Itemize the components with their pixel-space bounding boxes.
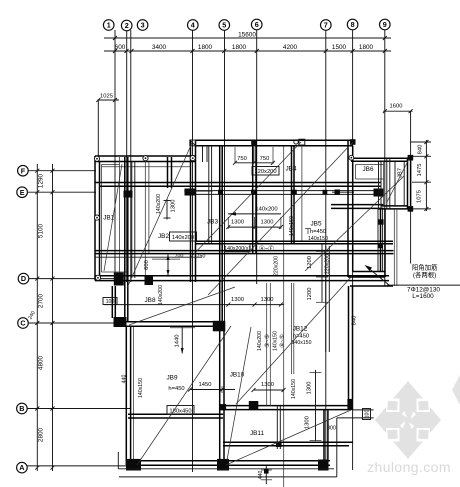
svg-text:5: 5 <box>222 21 226 30</box>
svg-text:1300: 1300 <box>231 220 244 226</box>
svg-text:1: 1 <box>107 21 111 30</box>
svg-text:1300: 1300 <box>305 416 311 429</box>
row B mid column black <box>249 401 258 410</box>
svg-text:B: B <box>19 404 24 413</box>
diagonal leader JB7 appendage <box>305 176 404 271</box>
svg-text:(各两根): (各两根) <box>413 270 436 279</box>
svg-text:Ⓐ~Ⓕ: Ⓐ~Ⓕ <box>259 245 274 253</box>
leader arrow 140x200 mid <box>228 207 281 216</box>
axis line C <box>28 322 122 324</box>
wall step black x149 at D <box>145 276 154 286</box>
diagonal leader upper-left block <box>127 143 192 288</box>
lower block C row corner blocks <box>114 317 127 327</box>
grid line axis 2 <box>126 31 128 282</box>
label 180x450 box <box>167 406 194 415</box>
dim 1300 horizontal lower <box>252 382 286 392</box>
svg-text:1200: 1200 <box>307 288 313 301</box>
watermark edge piece right <box>452 375 460 405</box>
svg-text:JB7: JB7 <box>398 168 404 178</box>
dim 1300 1300 lower mid <box>104 297 284 307</box>
beam row D <box>95 276 389 281</box>
svg-text:120x200: 120x200 <box>254 169 276 175</box>
axis circle 9 <box>380 19 391 30</box>
diagonal leader JB5 long <box>208 142 353 295</box>
svg-text:E: E <box>20 188 25 197</box>
svg-text:6: 6 <box>255 20 259 29</box>
svg-text:700: 700 <box>175 253 184 259</box>
appendage right edge <box>408 155 411 209</box>
beam row y183 upper blocks <box>95 183 381 187</box>
lower block C row top edge <box>114 322 224 327</box>
axis circle C <box>18 318 29 329</box>
diagonal leader JB3/axis line long <box>191 142 301 257</box>
diagonal leader JB9 room <box>137 326 231 465</box>
lower block heavy mid vertical <box>220 331 224 460</box>
svg-text:440: 440 <box>122 375 128 384</box>
lower inner verticals x267 x271 <box>267 283 271 406</box>
dim 440 bottom <box>258 466 272 484</box>
column marker top-right corner black <box>350 139 356 145</box>
column marker stub black <box>378 219 383 224</box>
wall pair x291 <box>292 146 295 243</box>
svg-text:1025: 1025 <box>100 94 113 100</box>
lower block left edge <box>126 327 130 465</box>
dim 750 750 top <box>233 147 275 165</box>
diagonal leader JB10 room <box>227 327 251 460</box>
top dimension line lower <box>104 50 391 52</box>
axis line D <box>29 278 116 280</box>
note leader line <box>387 284 460 286</box>
svg-text:100: 100 <box>106 299 115 305</box>
note rebar text <box>407 287 440 300</box>
svg-text:JB11: JB11 <box>250 430 265 437</box>
svg-text:F: F <box>21 166 26 175</box>
wall pair axis2 vertical <box>125 157 128 321</box>
column marker left bottom <box>95 275 100 280</box>
svg-text:840: 840 <box>352 316 358 326</box>
svg-text:JB5: JB5 <box>310 220 321 227</box>
top dim ticks <box>113 36 387 53</box>
axis circle 5 <box>219 20 230 31</box>
axis line E right stub <box>332 191 354 193</box>
grid line aux right (1600) <box>410 111 412 263</box>
lower inner wall x326 <box>326 246 330 352</box>
svg-text:140x150: 140x150 <box>291 379 297 399</box>
beam row R1 <box>195 241 393 244</box>
svg-text:750: 750 <box>260 156 270 162</box>
column marker E row x220 black <box>218 190 223 195</box>
svg-text:4: 4 <box>191 21 195 30</box>
svg-text:JB3: JB3 <box>207 219 218 226</box>
connecting wall black step at D <box>114 273 124 286</box>
diagonal leader JB11 room <box>226 410 351 465</box>
grid line aux left (1025) <box>97 100 99 157</box>
dim 1600 top right <box>383 104 413 114</box>
left dim ticks <box>35 169 54 470</box>
column marker stub at R1 black <box>378 243 383 248</box>
column marker B row junction black <box>221 404 227 410</box>
wall step black x190 y190 <box>185 189 196 196</box>
wall step pair axis4 <box>191 140 196 282</box>
svg-text:7: 7 <box>324 21 328 30</box>
diagonal leader JB1 room <box>104 164 122 271</box>
top dimension line upper <box>104 37 391 39</box>
svg-text:800: 800 <box>327 426 336 432</box>
svg-text:600: 600 <box>144 260 150 270</box>
column marker E row x253 black <box>251 190 256 195</box>
column marker appendage top-left <box>349 155 354 160</box>
svg-text:140x200: 140x200 <box>156 194 162 214</box>
svg-text:L=1600: L=1600 <box>412 293 434 300</box>
svg-text:1800: 1800 <box>198 44 213 51</box>
svg-text:h=450: h=450 <box>310 229 326 235</box>
svg-text:③~⑤: ③~⑤ <box>264 334 271 348</box>
svg-text:140x200(s): 140x200(s) <box>224 246 250 252</box>
corner step lower-right of upper block <box>348 209 393 286</box>
svg-text:JB4: JB4 <box>285 166 296 173</box>
svg-text:JB8: JB8 <box>144 297 155 304</box>
svg-text:220x200: 220x200 <box>274 256 280 276</box>
lower block left inner line <box>133 327 135 461</box>
axis line F <box>28 170 96 172</box>
beam row B right <box>219 406 353 410</box>
column marker axis4 top <box>190 140 196 146</box>
svg-text:1300: 1300 <box>261 382 274 388</box>
column marker appendage bottom-right black <box>408 206 414 212</box>
svg-text:h=450: h=450 <box>168 386 184 392</box>
dim 1440 rotated with arrow <box>170 327 195 354</box>
svg-text:1450: 1450 <box>199 382 212 388</box>
axis line E <box>27 191 96 193</box>
JB6 room inner rect <box>356 161 384 206</box>
svg-text:5100: 5100 <box>38 223 45 238</box>
svg-text:140x200: 140x200 <box>158 285 164 305</box>
dim 1200 rotated chain <box>307 244 328 303</box>
beam row B left <box>128 414 223 418</box>
right dimension line (appendage) <box>411 140 431 211</box>
lower right step edge <box>324 410 328 461</box>
beam row y446 <box>223 442 353 446</box>
axis circle B <box>17 403 28 414</box>
svg-text:3: 3 <box>141 21 145 30</box>
svg-text:8: 8 <box>351 20 355 29</box>
svg-text:220x200: 220x200 <box>325 254 331 274</box>
wall pair x220 upper <box>220 146 223 321</box>
axis circle 1 <box>103 20 114 31</box>
column marker E row right black <box>335 190 340 195</box>
column marker x279 row446 black <box>276 441 282 447</box>
svg-text:100: 100 <box>365 410 371 419</box>
axis circle A <box>17 462 28 473</box>
svg-text:1440: 1440 <box>175 335 181 348</box>
appendage inner walls <box>387 158 404 209</box>
dim 1025 left small <box>96 94 119 103</box>
label 100 box left <box>103 298 117 306</box>
svg-text:1075: 1075 <box>417 190 423 203</box>
wall thin verticals upper-left <box>145 157 149 278</box>
svg-text:750: 750 <box>237 156 247 162</box>
svg-text:1290: 1290 <box>38 173 45 188</box>
svg-text:140x150: 140x150 <box>273 331 279 351</box>
svg-text:1600: 1600 <box>390 104 403 110</box>
beam row R2 <box>95 251 394 254</box>
svg-text:1300: 1300 <box>306 382 312 395</box>
dim line 1300 vertical upper-left <box>164 199 171 220</box>
label 140x200(s) box <box>224 244 250 252</box>
wall upper-right block top edge <box>196 140 353 146</box>
svg-text:140x150: 140x150 <box>292 340 312 346</box>
label 100 box right step <box>363 409 371 420</box>
connecting wall D-C <box>112 286 115 318</box>
beam row A <box>128 461 330 465</box>
dim 600 rotated <box>144 255 180 276</box>
wall step x205 between blocks <box>203 146 212 243</box>
axis circle 6 <box>251 19 262 30</box>
column marker x254 top <box>251 140 257 146</box>
column marker E row x294 black <box>292 190 297 195</box>
watermark logo zhulong diamond <box>375 381 441 459</box>
axis line B <box>27 408 130 410</box>
svg-text:A: A <box>19 463 24 472</box>
label JB12 stack <box>292 325 312 346</box>
svg-text:1300: 1300 <box>231 297 244 303</box>
grid line axis 8 <box>352 30 354 470</box>
svg-text:1300: 1300 <box>261 297 274 303</box>
wall step black x128 y192 <box>124 191 133 198</box>
note leader arrow corner <box>365 265 390 285</box>
left dimension line outer <box>36 164 38 471</box>
svg-text:2800: 2800 <box>38 427 45 442</box>
diagonal leader JB12 room <box>236 276 352 404</box>
wall pair axis3 vertical <box>132 162 135 279</box>
svg-text:2700: 2700 <box>38 293 45 308</box>
svg-text:15600: 15600 <box>238 32 256 39</box>
svg-text:C: C <box>20 319 25 328</box>
grid line axis 1 <box>114 30 116 282</box>
appendage inner pair x379 <box>379 161 382 209</box>
svg-text:JB6: JB6 <box>362 166 373 173</box>
svg-text:D: D <box>21 274 26 283</box>
svg-text:140x200: 140x200 <box>257 331 263 351</box>
svg-text:阳角加筋: 阳角加筋 <box>412 262 438 271</box>
lower mid column x279 <box>277 406 280 449</box>
svg-text:1800: 1800 <box>359 44 374 51</box>
axis line A <box>27 465 130 467</box>
row A mid column black <box>217 459 229 471</box>
wall pair x254 <box>253 146 256 253</box>
column marker appendage top-right black <box>408 155 414 161</box>
dim 1300 1300 rotated chain right <box>305 370 322 441</box>
wall pair x395 right <box>394 209 397 286</box>
grid line axis 9 <box>384 30 386 286</box>
axis circle 8 <box>347 19 358 30</box>
svg-text:140x150: 140x150 <box>308 236 328 242</box>
row B right corner black <box>347 399 353 410</box>
wall upper-left block left edge <box>95 156 100 281</box>
column marker top x193 <box>190 156 195 161</box>
svg-text:2: 2 <box>125 21 129 30</box>
dim 1450 <box>188 382 235 393</box>
svg-text:140x150: 140x150 <box>289 216 295 236</box>
svg-text:JB12: JB12 <box>293 325 308 332</box>
beam row R3 <box>95 256 202 258</box>
appendage stub walls down <box>378 209 383 272</box>
svg-text:4800: 4800 <box>38 355 45 370</box>
svg-text:440: 440 <box>258 471 264 480</box>
column marker x302 top <box>294 139 305 145</box>
wall pair x169 <box>168 157 172 188</box>
svg-text:1300: 1300 <box>261 220 274 226</box>
svg-text:840: 840 <box>418 145 424 155</box>
svg-text:1800: 1800 <box>232 44 247 51</box>
row A corner black right <box>318 460 329 471</box>
beam row E axis <box>195 191 381 195</box>
label JB2 size box 140x200 <box>170 232 197 241</box>
dim 1300 1300 mid <box>226 217 283 229</box>
svg-text:140x150: 140x150 <box>138 378 144 398</box>
left dimension line inner <box>52 164 54 471</box>
svg-text:1500: 1500 <box>332 44 347 51</box>
axis circle 2 <box>121 20 132 31</box>
grid line axis 4 <box>192 30 194 472</box>
wall thin x302 <box>301 146 303 242</box>
wall upper-left block top edge <box>95 156 196 162</box>
svg-text:4200: 4200 <box>283 44 298 51</box>
column marker E row x325 black <box>323 190 328 195</box>
svg-text:JB9: JB9 <box>166 375 177 382</box>
grid line axis 6 <box>256 30 258 284</box>
note text box <box>412 262 438 279</box>
beam JB6 bottom pair <box>331 205 384 209</box>
column marker top-left corner <box>94 156 99 161</box>
svg-text:140x200: 140x200 <box>255 207 277 213</box>
outer footing line bottom 1 <box>118 452 336 477</box>
svg-text:750: 750 <box>197 253 206 259</box>
outer footing line bottom 2 <box>337 410 374 477</box>
svg-text:zhulong.com: zhulong.com <box>367 459 451 475</box>
svg-text:140x200: 140x200 <box>172 235 194 241</box>
label JB9 stack <box>166 375 184 393</box>
grid line aux mid <box>283 146 285 487</box>
axis circle E <box>17 187 28 198</box>
svg-text:180x450: 180x450 <box>169 409 191 415</box>
diagonal leader JB8 <box>129 287 235 325</box>
wall step black right of JB6 <box>374 189 384 197</box>
axis circle D <box>18 273 29 284</box>
column marker top mid x145 <box>143 156 148 161</box>
diagonal leader appendage inner <box>387 159 409 202</box>
grid line axis 3 <box>130 30 132 282</box>
appendage bottom edge <box>378 206 411 209</box>
column marker left mid <box>94 215 99 220</box>
grid line axis 5 <box>224 30 226 331</box>
svg-text:9: 9 <box>383 20 387 29</box>
lower block right edge <box>349 286 353 402</box>
wall JB1 room inner lines <box>102 157 191 278</box>
svg-text:1475: 1475 <box>417 164 423 177</box>
svg-text:1200: 1200 <box>307 256 313 269</box>
axis circle 4 <box>188 20 199 31</box>
svg-text:1300: 1300 <box>171 200 177 213</box>
row A corner black left <box>126 459 141 471</box>
grid line axis 7 <box>325 30 327 470</box>
wall upper-right block right edge <box>348 140 353 277</box>
label JB5 stack <box>305 220 328 242</box>
svg-text:④~⑤: ④~⑤ <box>279 334 286 348</box>
appendage top edge <box>351 158 411 161</box>
label 120x200 box <box>252 167 279 176</box>
wall step line y191 <box>184 190 212 192</box>
axis circle 3 <box>137 20 148 31</box>
axis circle F <box>18 165 29 176</box>
svg-text:3400: 3400 <box>152 44 167 51</box>
axis circle 7 <box>321 20 332 31</box>
svg-text:JB2: JB2 <box>158 233 169 240</box>
